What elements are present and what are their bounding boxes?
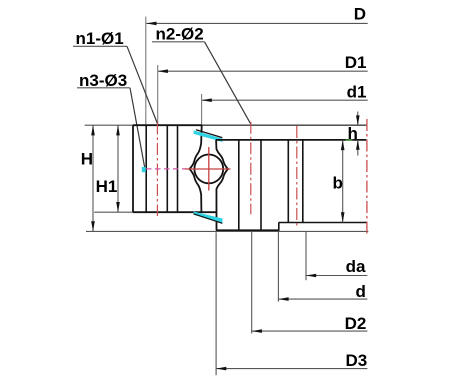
- outer ring hole B right edge: [302, 140, 304, 223]
- outer edge centerline red: [366, 119, 368, 234]
- inner ring outline: [133, 125, 217, 212]
- svg-text:n1-Ø1: n1-Ø1: [76, 29, 124, 48]
- svg-text:H: H: [81, 150, 93, 169]
- top seal cyan band: [194, 130, 223, 142]
- svg-text:d: d: [356, 282, 366, 301]
- extension line for D: [145, 17, 147, 126]
- dimension b line: [341, 140, 345, 223]
- outer ring step surface: [279, 222, 368, 224]
- outer ring hole B centerline red: [296, 126, 298, 226]
- green underline h: [346, 139, 353, 141]
- extension line D2: [251, 232, 253, 334]
- outer ring top: [216, 139, 367, 141]
- svg-text:H1: H1: [96, 177, 118, 196]
- outer ring bottom: [216, 229, 279, 231]
- dimension H line: [91, 125, 95, 231]
- grease plug cyan: [142, 167, 146, 172]
- inner ring hole left edge: [145, 125, 147, 212]
- extension line da: [305, 232, 307, 280]
- svg-text:da: da: [346, 257, 366, 276]
- outer ring step vertical: [278, 223, 280, 231]
- extension line for D1: [157, 65, 159, 125]
- outer ring hole B left edge: [287, 140, 289, 223]
- raceway right wall: [216, 140, 228, 231]
- dimension D1 line: [158, 69, 368, 73]
- leader n1: [73, 46, 158, 125]
- leader n2: [152, 42, 251, 125]
- dimension h lower: [356, 140, 360, 156]
- bottom seal black edge: [194, 214, 223, 224]
- top seal black edge: [196, 130, 222, 138]
- inner ring bore line: [177, 125, 179, 212]
- svg-text:n3-Ø3: n3-Ø3: [79, 71, 127, 90]
- svg-text:d1: d1: [347, 82, 367, 101]
- bottom extension line H1: [94, 211, 133, 213]
- svg-text:D2: D2: [345, 314, 367, 333]
- dimension d line: [278, 297, 367, 301]
- leader n3: [77, 88, 145, 167]
- svg-text:D: D: [354, 5, 366, 24]
- svg-text:D1: D1: [345, 53, 367, 72]
- svg-text:D3: D3: [345, 351, 367, 370]
- bottom extension line H: [86, 230, 368, 232]
- extension line d: [277, 232, 279, 302]
- top surface extension line right: [202, 124, 366, 126]
- grease line magenta: [146, 168, 186, 170]
- top surface extension line left: [85, 124, 134, 126]
- outer ring hole A left edge: [238, 140, 240, 230]
- extension line D3: [215, 232, 217, 375]
- dimension da line: [306, 274, 367, 278]
- dimension D3 line: [216, 367, 367, 371]
- svg-text:n2-Ø2: n2-Ø2: [156, 25, 204, 44]
- dimension D2 line: [252, 329, 368, 333]
- ball: [194, 155, 223, 184]
- ball horizontal centerline: [185, 168, 231, 170]
- ball vertical centerline: [208, 147, 210, 191]
- raceway left wall: [190, 125, 202, 212]
- svg-text:b: b: [333, 173, 343, 192]
- bottom seal cyan band: [194, 212, 223, 224]
- dimension D line: [146, 22, 367, 26]
- dimension H1 line: [116, 125, 120, 212]
- inner ring hole centerline red: [156, 123, 158, 217]
- outer ring hole A right edge: [260, 140, 262, 230]
- dimension h upper: [356, 112, 360, 126]
- extension line for d1: [201, 94, 203, 125]
- outer ring hole A centerline red: [250, 122, 252, 215]
- dimension d1 line: [202, 98, 368, 102]
- inner ring hole right edge: [166, 125, 168, 212]
